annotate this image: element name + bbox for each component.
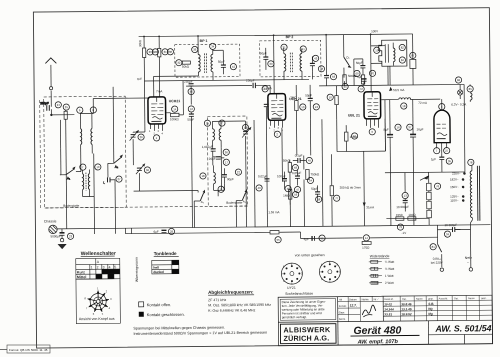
svg-text:Ausst.M.: Ausst.M. bbox=[439, 297, 449, 300]
svg-text:2MΩ: 2MΩ bbox=[290, 96, 297, 100]
svg-text:10 000pF: 10 000pF bbox=[444, 223, 457, 227]
svg-text:50kΩ: 50kΩ bbox=[283, 159, 291, 163]
wire bbox=[384, 151, 386, 173]
svg-text:7: 7 bbox=[281, 272, 283, 276]
BP2 core bbox=[290, 53, 292, 73]
svg-text:48: 48 bbox=[294, 166, 298, 170]
fuse wire bbox=[437, 228, 470, 230]
label 79 bbox=[468, 159, 474, 165]
svg-text:16: 16 bbox=[396, 125, 400, 129]
svg-text:86: 86 bbox=[457, 78, 461, 82]
BP2 primary coil bbox=[284, 48, 286, 80]
capacitor C16 bbox=[202, 145, 216, 151]
resistor R14c 175ohm bbox=[362, 241, 371, 249]
label 26 bbox=[138, 134, 144, 140]
back-bias resistors bbox=[386, 211, 429, 220]
label 10b bbox=[300, 104, 306, 110]
approval table (Konstr/Gepr/Norm) bbox=[338, 296, 384, 321]
svg-text:4: 4 bbox=[109, 265, 111, 269]
capacitor C70 bbox=[354, 59, 366, 68]
svg-text:Mittel: Mittel bbox=[77, 275, 86, 279]
svg-text:UBL 21: UBL 21 bbox=[348, 113, 360, 117]
label 15 bbox=[204, 120, 210, 126]
svg-text:Name: Name bbox=[362, 297, 370, 301]
label 58 bbox=[316, 196, 322, 202]
power transformer primary bbox=[470, 166, 480, 221]
label 25 bbox=[63, 104, 69, 110]
label 40 bbox=[256, 185, 262, 191]
pin numbers bbox=[269, 127, 284, 133]
svg-text:5μF: 5μF bbox=[357, 75, 362, 79]
resistor R77 bbox=[330, 185, 361, 195]
dashed shield bottom plate bbox=[45, 206, 248, 208]
label 24 bbox=[55, 102, 61, 108]
label 6 bbox=[77, 107, 83, 113]
resistor R30 bbox=[143, 48, 146, 58]
label 8 bbox=[90, 107, 96, 113]
resistor R56 bbox=[283, 190, 292, 205]
mains rating text bbox=[431, 257, 443, 265]
label 14 bbox=[172, 106, 178, 112]
svg-text:A₂: A₂ bbox=[115, 165, 119, 169]
svg-text:100kΩ: 100kΩ bbox=[170, 117, 180, 121]
svg-text:11,6mA: 11,6mA bbox=[262, 86, 272, 90]
label 46a bbox=[184, 80, 194, 87]
svg-text:Kurz: Kurz bbox=[77, 270, 85, 274]
capacitor C29 6uF bbox=[153, 230, 166, 234]
tube U3 UBL21 bbox=[364, 92, 381, 119]
capacitor C46 100uF bbox=[277, 172, 287, 190]
capacitor C63 bbox=[324, 35, 329, 86]
capacitor C12 bbox=[187, 114, 194, 122]
label 48b bbox=[318, 66, 324, 72]
switch A5 bbox=[194, 190, 205, 204]
wire antenna to coupling bbox=[51, 114, 74, 116]
svg-text:1: 1 bbox=[149, 130, 151, 133]
svg-text:Ausst.M.: Ausst.M. bbox=[384, 298, 394, 301]
svg-text:50pF: 50pF bbox=[260, 51, 267, 55]
oscillator coil L2 bbox=[219, 121, 221, 147]
svg-text:2: 2 bbox=[336, 262, 338, 266]
svg-text:Name: Name bbox=[468, 297, 475, 300]
svg-text:10: 10 bbox=[96, 165, 100, 169]
svg-text:4: 4 bbox=[336, 277, 338, 281]
tap terminals bbox=[462, 173, 466, 202]
svg-text:19: 19 bbox=[375, 48, 379, 52]
svg-text:6μF: 6μF bbox=[153, 230, 158, 234]
svg-text:A₅: A₅ bbox=[201, 200, 205, 204]
svg-text:67: 67 bbox=[353, 134, 357, 138]
svg-text:300 kΩ ab 3mm: 300 kΩ ab 3mm bbox=[340, 185, 362, 189]
svg-text:27: 27 bbox=[117, 177, 121, 181]
capacitor left of tube2 bbox=[264, 104, 269, 120]
svg-text:gepr.: gepr. bbox=[481, 297, 487, 300]
svg-text:37: 37 bbox=[408, 125, 412, 129]
label 23 bbox=[67, 233, 73, 239]
svg-text:3: 3 bbox=[277, 127, 279, 130]
label 16c bbox=[395, 124, 401, 130]
svg-text:56: 56 bbox=[294, 193, 298, 197]
label 55 bbox=[275, 237, 281, 243]
label 46b bbox=[285, 186, 291, 192]
svg-text:A: A bbox=[97, 260, 100, 264]
mains plug terminals bbox=[437, 220, 472, 272]
capacitor C24 250pF bbox=[40, 101, 49, 111]
svg-text:0,02μF: 0,02μF bbox=[258, 174, 268, 178]
svg-text:Tonblende: Tonblende bbox=[154, 251, 177, 256]
svg-text:33.51: 33.51 bbox=[384, 312, 392, 316]
tube U2 pins bbox=[270, 121, 282, 128]
svg-text:Kontakt geschlossen.: Kontakt geschlossen. bbox=[147, 312, 185, 317]
dashed shield box A (coil pack) bbox=[44, 96, 127, 208]
svg-text:D₁: D₁ bbox=[346, 56, 349, 60]
svg-text:7: 7 bbox=[319, 270, 321, 274]
dashed shield box B (oscillator) bbox=[207, 116, 247, 206]
label 13b bbox=[313, 104, 319, 110]
svg-text:Wy: Wy bbox=[428, 307, 433, 311]
svg-text:63: 63 bbox=[332, 75, 336, 79]
resistor R10 bbox=[290, 85, 298, 120]
electrolytic C16 8uF bbox=[383, 100, 394, 226]
trimmer C36 bbox=[136, 164, 145, 174]
svg-text:7mA: 7mA bbox=[156, 89, 162, 93]
svg-text:10 000pF: 10 000pF bbox=[396, 205, 409, 209]
svg-text:150V~: 150V~ bbox=[450, 185, 459, 189]
label 21 bbox=[281, 44, 287, 50]
osc wires bbox=[212, 121, 246, 227]
label 72 bbox=[358, 86, 364, 92]
svg-text:UY21: UY21 bbox=[287, 286, 296, 290]
capacitor C45 0,1uF bbox=[293, 153, 306, 163]
svg-text:175Ω: 175Ω bbox=[362, 246, 370, 250]
top supply bus bbox=[139, 34, 413, 37]
capacitor C87 bbox=[410, 42, 416, 85]
oscillator coil L15 bbox=[212, 121, 214, 147]
switch A1 bbox=[60, 167, 75, 180]
padder coil L18 bbox=[213, 165, 215, 190]
svg-text:54: 54 bbox=[309, 178, 313, 182]
svg-text:5: 5 bbox=[102, 312, 104, 316]
label 48 bbox=[292, 164, 298, 170]
svg-text:220V~: 220V~ bbox=[452, 171, 461, 175]
label 16 bbox=[223, 149, 229, 155]
svg-text:Widerstände: Widerstände bbox=[370, 254, 390, 258]
svg-text:M. Osz. 585/1800 kHz VK 585/: M. Osz. 585/1800 kHz VK 585/1595 kHz bbox=[208, 303, 271, 308]
switch A2 bbox=[108, 155, 123, 169]
resistor R10c above cathode box bbox=[335, 86, 339, 120]
resistor R14 bbox=[170, 113, 180, 121]
svg-text:70: 70 bbox=[371, 71, 375, 75]
BP1 secondary coil bbox=[211, 49, 213, 80]
wire AF coupling bbox=[353, 59, 355, 85]
svg-text:1: 1 bbox=[269, 127, 271, 130]
capacitor C47 bbox=[292, 170, 302, 186]
vertical feed wires left of tube1 bbox=[144, 36, 160, 132]
svg-text:77: 77 bbox=[335, 196, 339, 200]
HT vertical line bbox=[463, 84, 466, 171]
svg-text:40: 40 bbox=[258, 186, 262, 190]
capacitor C13c bbox=[396, 172, 409, 211]
resistor R54 bbox=[306, 169, 320, 179]
svg-text:15: 15 bbox=[206, 121, 210, 125]
svg-text:2: 2 bbox=[276, 132, 278, 136]
heater winding bbox=[470, 84, 472, 102]
svg-text:182V~: 182V~ bbox=[450, 177, 459, 181]
socket UBL21 bbox=[319, 261, 340, 282]
BP2 secondary coil bbox=[300, 48, 302, 79]
svg-text:50pF: 50pF bbox=[356, 61, 363, 65]
svg-text:50pF: 50pF bbox=[305, 93, 312, 97]
svg-text:36: 36 bbox=[146, 168, 150, 172]
svg-text:Spannungen bei Mittelwellen g: Spannungen bei Mittelwellen gegen Chassi… bbox=[133, 326, 225, 331]
svg-text:1 Watt: 1 Watt bbox=[385, 274, 394, 278]
label 18c bbox=[401, 103, 407, 109]
svg-text:AW. empf. 107b: AW. empf. 107b bbox=[357, 339, 399, 345]
svg-text:12.7.: 12.7. bbox=[350, 303, 357, 307]
mains switch bbox=[438, 238, 442, 267]
BP1 core bbox=[204, 53, 206, 73]
capacitor C heater 1uF bbox=[431, 153, 445, 172]
label 44 bbox=[262, 86, 268, 92]
wire bbox=[93, 87, 115, 234]
svg-text:50,5 mA: 50,5 mA bbox=[393, 88, 404, 92]
capacitor C39 bbox=[260, 48, 269, 70]
svg-text:18: 18 bbox=[402, 104, 406, 108]
svg-text:Gepr.: Gepr. bbox=[339, 310, 346, 314]
svg-text:12: 12 bbox=[190, 107, 194, 111]
wire grid line to tube1 bbox=[93, 97, 148, 100]
svg-text:4: 4 bbox=[109, 306, 111, 310]
svg-text:UCH21: UCH21 bbox=[169, 99, 181, 103]
svg-text:1: 1 bbox=[156, 136, 158, 140]
svg-text:bei 220V: bei 220V bbox=[431, 261, 443, 265]
right bus bbox=[385, 171, 465, 174]
svg-text:26: 26 bbox=[140, 135, 144, 139]
svg-text:250pF: 250pF bbox=[184, 80, 193, 84]
svg-text:5000pF: 5000pF bbox=[51, 234, 61, 238]
svg-text:BP 1: BP 1 bbox=[200, 39, 208, 43]
svg-text:Abgleichfrequenzen:: Abgleichfrequenzen: bbox=[208, 289, 254, 294]
label 86 bbox=[455, 77, 461, 83]
svg-text:14: 14 bbox=[365, 236, 369, 240]
tube U2 UCH21 bbox=[268, 94, 286, 121]
svg-text:85: 85 bbox=[469, 87, 473, 91]
node dot bbox=[51, 114, 53, 116]
svg-text:45: 45 bbox=[308, 159, 312, 163]
coil L6 bbox=[75, 114, 82, 172]
svg-text:51: 51 bbox=[321, 236, 325, 240]
svg-text:Dat.: Dat. bbox=[454, 297, 459, 300]
label 51 bbox=[319, 235, 325, 241]
label 45 bbox=[306, 157, 312, 163]
svg-text:0,1μF: 0,1μF bbox=[295, 153, 303, 157]
tube U3 pins bbox=[366, 119, 378, 128]
B+ rail bbox=[381, 42, 441, 151]
svg-text:32: 32 bbox=[177, 61, 181, 65]
svg-text:Chassis: Chassis bbox=[44, 219, 57, 223]
svg-text:100V: 100V bbox=[371, 29, 378, 33]
svg-text:Formul. QB 17b 5000. 11. 45: Formul. QB 17b 5000. 11. 45 bbox=[9, 348, 48, 352]
svg-text:A₁: A₁ bbox=[67, 176, 70, 180]
svg-text:hell: hell bbox=[153, 266, 159, 270]
label 36 bbox=[144, 167, 150, 173]
label 10 bbox=[95, 164, 101, 170]
label 28 bbox=[152, 49, 158, 55]
label 12 bbox=[188, 106, 194, 112]
label 7 bbox=[80, 164, 86, 170]
label 7b bbox=[434, 148, 440, 154]
capacitor C42 bbox=[213, 50, 226, 74]
svg-text:Bodenplatte: Bodenplatte bbox=[226, 201, 242, 205]
svg-text:ZF 471 kHz: ZF 471 kHz bbox=[208, 298, 226, 302]
Tonblende title bbox=[154, 251, 179, 257]
tone switch D bbox=[344, 35, 351, 78]
drawing title Geraet 480 bbox=[350, 324, 419, 345]
switch A6 bbox=[236, 190, 247, 204]
capacitor C19 bbox=[222, 168, 234, 183]
svg-text:42: 42 bbox=[232, 65, 236, 69]
trimmer C13 bbox=[242, 127, 251, 137]
label 46c bbox=[188, 88, 194, 94]
AVC line bbox=[186, 84, 252, 87]
svg-text:24: 24 bbox=[57, 103, 61, 107]
tube U1 UCH21 bbox=[148, 97, 166, 124]
svg-text:¼ Watt: ¼ Watt bbox=[385, 260, 395, 264]
svg-text:Ansicht von Knopf aus: Ansicht von Knopf aus bbox=[79, 317, 115, 321]
svg-text:44: 44 bbox=[339, 298, 342, 302]
svg-text:72 mA: 72 mA bbox=[418, 101, 427, 105]
resistor R25 bbox=[64, 110, 68, 229]
label 69 bbox=[354, 70, 360, 76]
svg-text:30: 30 bbox=[149, 50, 153, 54]
svg-text:½ Watt: ½ Watt bbox=[385, 267, 395, 271]
svg-text:AW. S. 501/54: AW. S. 501/54 bbox=[434, 323, 491, 334]
svg-text:3: 3 bbox=[110, 297, 112, 301]
wire top bus to tube2 bbox=[270, 35, 275, 94]
capacitor C23 to ground bbox=[50, 229, 64, 239]
svg-text:81: 81 bbox=[432, 245, 436, 249]
junction dots bbox=[143, 33, 371, 37]
current text 50,5 mA bbox=[390, 88, 405, 93]
Tonblende table bbox=[152, 260, 179, 274]
resistor R48 bbox=[283, 159, 292, 173]
label 14c bbox=[363, 235, 369, 241]
label 29 bbox=[168, 228, 174, 234]
svg-text:82: 82 bbox=[401, 46, 405, 50]
svg-text:17: 17 bbox=[225, 160, 229, 164]
wire bbox=[133, 86, 237, 228]
svg-text:33: 33 bbox=[193, 48, 197, 52]
electrolytic C37 16uF bbox=[410, 99, 425, 225]
Wellenschalter title bbox=[81, 251, 116, 257]
svg-text:3: 3 bbox=[158, 130, 160, 133]
label 87 bbox=[410, 52, 416, 58]
label 77 bbox=[334, 195, 340, 201]
svg-text:16μF: 16μF bbox=[417, 127, 424, 131]
svg-text:250pF: 250pF bbox=[40, 101, 49, 105]
svg-text:30.8.46: 30.8.46 bbox=[401, 302, 412, 306]
wires BP1 bottom bbox=[154, 76, 199, 97]
wires BP2 bottom bbox=[311, 71, 313, 79]
resistor R69 bbox=[361, 68, 365, 86]
label 22 bbox=[235, 169, 241, 175]
svg-text:20pF: 20pF bbox=[209, 157, 216, 161]
svg-text:18.9.52: 18.9.52 bbox=[401, 312, 412, 316]
svg-text:2: 2 bbox=[298, 264, 300, 268]
cathode circuit box bbox=[337, 119, 386, 152]
svg-text:~: ~ bbox=[467, 261, 469, 265]
svg-text:50kΩ: 50kΩ bbox=[182, 65, 190, 69]
svg-text:4: 4 bbox=[441, 105, 443, 109]
knob circle bbox=[90, 293, 106, 309]
svg-text:1,59 mA: 1,59 mA bbox=[268, 210, 279, 214]
capacitor C72 5uF bbox=[357, 75, 367, 86]
label 41 bbox=[300, 46, 306, 52]
svg-text:13.1.45: 13.1.45 bbox=[401, 307, 412, 311]
svg-text:78: 78 bbox=[469, 160, 473, 164]
svg-text:28: 28 bbox=[154, 50, 158, 54]
svg-text:4: 4 bbox=[162, 132, 164, 135]
Widerstaende legend bbox=[369, 254, 395, 285]
mains taps bbox=[450, 171, 461, 202]
svg-text:Bodenplatte: Bodenplatte bbox=[63, 204, 79, 208]
label 43 bbox=[313, 55, 319, 61]
resistor R cathode bbox=[344, 125, 357, 152]
svg-text:gerichtlich verfolgt.: gerichtlich verfolgt. bbox=[282, 315, 307, 319]
svg-text:30kΩ: 30kΩ bbox=[138, 39, 142, 47]
svg-text:18: 18 bbox=[201, 174, 205, 178]
label 39 bbox=[268, 61, 274, 67]
svg-text:8μF: 8μF bbox=[384, 128, 389, 132]
wire osc grid bbox=[133, 132, 198, 192]
resistor R32 bbox=[182, 61, 191, 69]
resistor R55 in return line bbox=[270, 231, 279, 234]
svg-text:Kontakt offen.: Kontakt offen. bbox=[147, 302, 172, 307]
svg-text:48: 48 bbox=[320, 67, 324, 71]
svg-text:gepr.: gepr. bbox=[428, 297, 434, 300]
resistor R65 500k bbox=[343, 74, 358, 86]
label 79 bbox=[397, 224, 403, 230]
svg-text:7: 7 bbox=[436, 149, 438, 153]
svg-text:750kΩ: 750kΩ bbox=[310, 172, 320, 176]
dropper resistor chain bbox=[420, 172, 432, 225]
svg-text:4μF: 4μF bbox=[304, 237, 309, 241]
revision table bbox=[383, 295, 492, 321]
sockets: von unten gesehen bbox=[281, 253, 341, 296]
svg-text:BP 2: BP 2 bbox=[286, 35, 294, 39]
svg-text:84: 84 bbox=[401, 58, 405, 62]
svg-text:5: 5 bbox=[291, 281, 293, 285]
svg-text:1: 1 bbox=[329, 260, 331, 264]
wire speaker to anode bbox=[388, 34, 413, 85]
socket UCH21 bbox=[281, 263, 302, 284]
svg-text:3: 3 bbox=[371, 130, 373, 134]
svg-text:29: 29 bbox=[170, 230, 174, 234]
svg-text:39: 39 bbox=[269, 62, 273, 66]
label 34b bbox=[444, 231, 450, 237]
svg-text:7: 7 bbox=[82, 165, 84, 169]
svg-text:2: 2 bbox=[97, 265, 99, 269]
svg-text:14: 14 bbox=[173, 107, 177, 111]
svg-text:35: 35 bbox=[448, 159, 452, 163]
drawing number AW.S. 501/54 bbox=[428, 323, 492, 344]
label 85 bbox=[467, 86, 473, 92]
label 35 bbox=[446, 158, 452, 164]
svg-text:Konstr.: Konstr. bbox=[339, 304, 347, 308]
svg-text:S.B.: S.B. bbox=[428, 302, 434, 306]
svg-text:38: 38 bbox=[169, 50, 173, 54]
svg-text:25: 25 bbox=[65, 105, 69, 109]
